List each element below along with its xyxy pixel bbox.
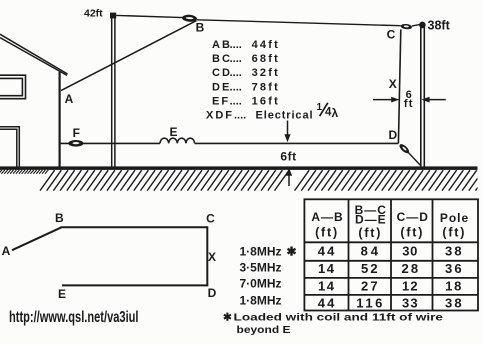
svg-text:44: 44 (318, 295, 335, 310)
plan wire B-C (61, 226, 208, 228)
svg-text:44ft: 44ft (252, 39, 280, 51)
plan wire C-D (206, 226, 208, 285)
svg-text:Electrical: Electrical (256, 110, 314, 122)
coil E (160, 138, 195, 143)
svg-text:30: 30 (402, 243, 417, 258)
svg-text:(ft): (ft) (315, 226, 339, 240)
svg-text:B: B (196, 21, 205, 35)
svg-text:....: .... (230, 39, 242, 51)
svg-text:3·5MHz: 3·5MHz (239, 261, 281, 275)
up arrow 6ft (288, 174, 290, 187)
svg-text:DE: DE (212, 81, 231, 93)
insulator C (400, 23, 412, 29)
wire C to D (398, 29, 400, 143)
svg-text:Loaded with coil and 11ft of w: Loaded with coil and 11ft of wire (234, 312, 444, 323)
wire F to D horizontal (60, 142, 399, 144)
svg-text:F: F (73, 126, 80, 140)
svg-text:18: 18 (445, 278, 461, 293)
house roof (0, 34, 68, 75)
pole 38ft (421, 24, 425, 168)
svg-text:7·0MHz: 7·0MHz (239, 276, 281, 290)
insulator F (68, 140, 83, 147)
table grid (304, 199, 478, 310)
wire halyard pole to B (116, 15, 183, 17)
table row 4 values (318, 295, 462, 310)
svg-text:(ft): (ft) (400, 226, 424, 240)
svg-text:C: C (206, 211, 215, 225)
svg-text:XDF: XDF (206, 110, 234, 122)
ground line (0, 166, 478, 170)
house door (0, 127, 19, 167)
svg-text:12: 12 (402, 278, 418, 293)
wire A to B (61, 21, 197, 91)
svg-text:1·8MHz: 1·8MHz (239, 244, 281, 258)
svg-text:(ft): (ft) (358, 226, 382, 240)
svg-text:http://www.qsl.net/va3iul: http://www.qsl.net/va3iul (9, 309, 139, 326)
svg-text:ft: ft (404, 98, 414, 110)
svg-text:....: .... (230, 81, 242, 93)
svg-text:38ft: 38ft (428, 19, 451, 33)
svg-text:6ft: 6ft (280, 150, 296, 164)
svg-text:A: A (65, 92, 74, 106)
svg-text:....: .... (230, 53, 242, 65)
svg-text:D: D (208, 286, 217, 300)
pole 42ft (112, 16, 115, 168)
dimension 6 ft arrows (373, 99, 446, 101)
svg-text:beyond E: beyond E (237, 325, 291, 336)
svg-text:EF: EF (212, 95, 230, 107)
insulator B (182, 14, 197, 22)
plan wire E-D (62, 284, 208, 286)
svg-text:A: A (2, 244, 11, 258)
svg-text:C—D: C—D (397, 210, 429, 224)
wire C to pole 38ft (412, 24, 421, 26)
svg-text:Pole: Pole (440, 211, 469, 225)
table row 1 values (318, 243, 462, 258)
svg-text:78ft: 78ft (252, 81, 280, 93)
svg-text:(ft): (ft) (442, 226, 466, 240)
svg-text:116: 116 (356, 295, 382, 310)
svg-text:E: E (169, 125, 177, 139)
svg-text:44: 44 (318, 243, 335, 258)
electrical quarter-wave pointer arrow (287, 121, 289, 137)
svg-text:X: X (208, 250, 216, 264)
svg-text:32ft: 32ft (252, 67, 280, 79)
svg-text:✱: ✱ (287, 244, 297, 258)
svg-text:68ft: 68ft (252, 53, 280, 65)
svg-text:D—E: D—E (355, 213, 387, 227)
svg-text:1·8MHz: 1·8MHz (239, 294, 281, 308)
svg-text:✱: ✱ (223, 311, 232, 323)
svg-text:....: .... (230, 95, 242, 107)
svg-text:λ: λ (332, 106, 339, 120)
insulator D (398, 143, 411, 155)
guy wire D to pole base (408, 152, 420, 165)
svg-text:42ft: 42ft (84, 8, 103, 20)
table row 3 values (318, 278, 461, 293)
wire B to C (197, 20, 401, 26)
svg-text:16ft: 16ft (252, 95, 280, 107)
svg-text:E: E (58, 287, 66, 301)
svg-text:....: .... (234, 110, 246, 122)
table row 2 values (318, 261, 462, 276)
svg-text:14: 14 (318, 261, 335, 276)
svg-text:A—B: A—B (311, 210, 343, 224)
plan wire A-B (12, 227, 62, 250)
svg-text:C: C (387, 27, 396, 41)
ground fine hatch (0, 170, 48, 174)
house window (0, 75, 26, 99)
svg-text:....: .... (230, 67, 242, 79)
house front wall (58, 72, 60, 167)
svg-text:B: B (55, 211, 64, 225)
svg-text:14: 14 (318, 278, 335, 293)
svg-text:D: D (388, 128, 397, 142)
svg-text:X: X (389, 77, 397, 91)
ground hatch (40, 170, 483, 190)
svg-text:33: 33 (402, 295, 418, 310)
